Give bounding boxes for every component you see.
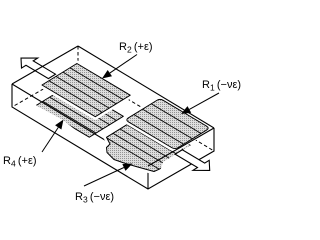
strain gauge R2grid — [42, 64, 130, 117]
bar right-front edge D-C — [148, 128, 214, 166]
svg-text:R1 (−νε): R1 (−νε) — [202, 79, 241, 93]
svg-text:R4 (+ε): R4 (+ε) — [3, 155, 37, 169]
svg-text:R3 (−νε): R3 (−νε) — [75, 191, 114, 205]
leader arrow R3 — [84, 168, 124, 187]
force arrow left (hollow outline, points up-left; bar edge passes over it) — [21, 58, 56, 79]
svg-text:R2 (+ε): R2 (+ε) — [119, 41, 153, 55]
leader arrow R4 — [42, 127, 58, 152]
vertical edge D-Dp — [147, 166, 149, 189]
leader arrow R1 — [189, 93, 219, 109]
leader arrow R2 — [110, 55, 137, 74]
bar top-left edge A-B — [12, 46, 78, 84]
bar back-top edge B-C — [78, 46, 214, 128]
strain gauge R1grid — [127, 99, 208, 148]
bar front-top edge A-D — [12, 84, 148, 166]
hidden edge Ap-Bp dashed — [12, 69, 78, 107]
strain gauge R4grid — [36, 85, 123, 138]
bar silhouette: left end, bottom, right end — [12, 84, 214, 189]
force arrow right (hollow outline, points down-right) — [175, 150, 210, 171]
hidden edge B-Bp dashed vertical — [77, 46, 79, 69]
hidden edge Bp-Cp dashed — [127, 99, 214, 151]
strain gauge R3grid — [104, 116, 194, 172]
